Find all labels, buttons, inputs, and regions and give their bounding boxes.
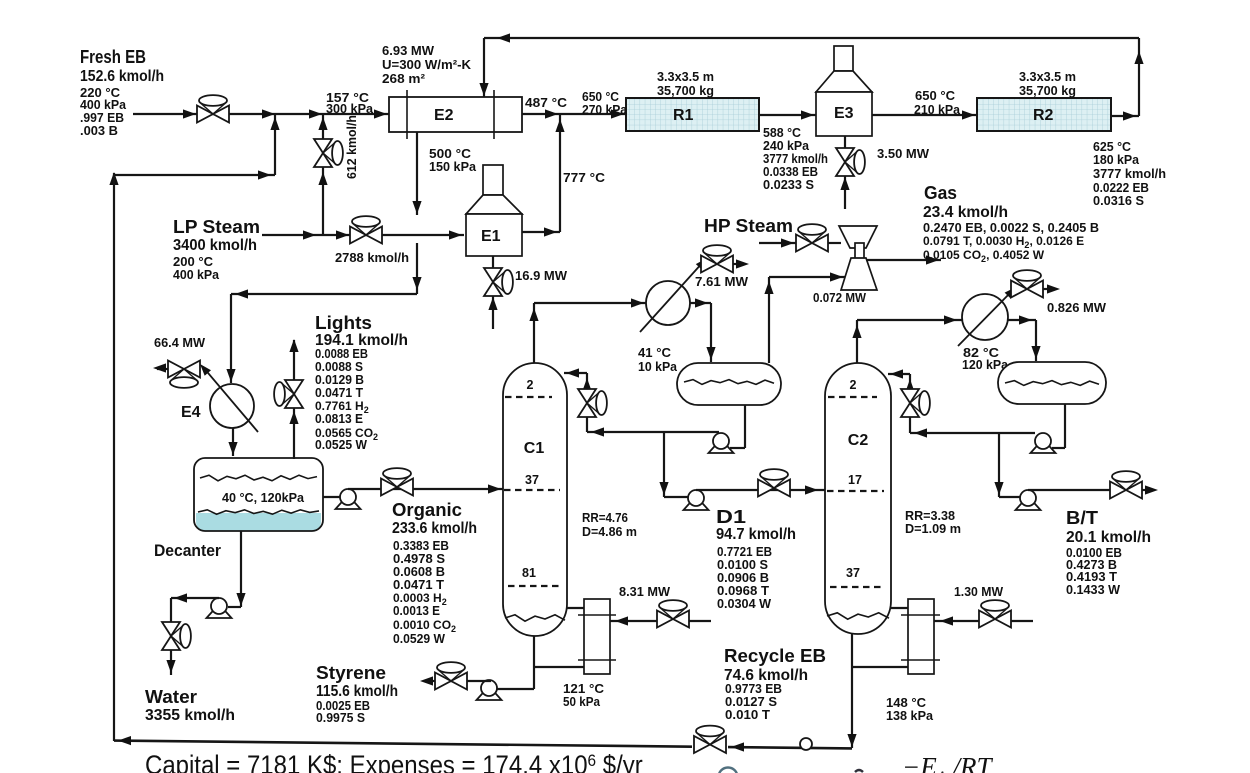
svg-text:17: 17 [848, 473, 862, 487]
svg-text:588 °C: 588 °C [763, 126, 801, 140]
svg-text:16.9 MW: 16.9 MW [515, 269, 567, 283]
svg-text:0.0471 T: 0.0471 T [315, 386, 363, 400]
svg-text:E3: E3 [834, 105, 854, 122]
svg-text:LP Steam: LP Steam [173, 217, 260, 237]
wire C2 overhead vapour line [856, 320, 858, 363]
svg-text:C1: C1 [524, 440, 545, 457]
svg-text:35,700 kg: 35,700 kg [657, 84, 714, 98]
wire steam blend riser 612 kmol/h [322, 114, 324, 235]
svg-text:138 kPa: 138 kPa [886, 709, 934, 723]
wire condenser outlet to drum D1 [690, 302, 711, 304]
valve water valve [162, 622, 180, 636]
wire E1 fuel line [492, 296, 494, 329]
svg-text:115.6 kmol/h: 115.6 kmol/h [316, 683, 398, 700]
svg-text:Organic: Organic [392, 500, 462, 520]
svg-text:D1: D1 [716, 507, 746, 527]
pump C2 reflux pump [1031, 443, 1056, 453]
valve recycle EB valve [694, 736, 710, 753]
svg-text:Capital = 7181 K$; Expenses =: Capital = 7181 K$; Expenses = 174.4 x106… [145, 751, 643, 773]
svg-text:2: 2 [850, 378, 857, 392]
svg-text:2788 kmol/h: 2788 kmol/h [335, 251, 409, 265]
svg-text:612 kmol/h: 612 kmol/h [345, 115, 359, 179]
wire E3 to R2 [872, 114, 977, 116]
svg-text:0.3383 EB: 0.3383 EB [393, 539, 449, 553]
decoration glyph fragments at bottom edge [719, 768, 738, 773]
reboiler C2 reboiler [908, 599, 934, 674]
valve E1 fuel valve 16.9 MW [484, 268, 502, 282]
wire D1 to C2 feed [696, 489, 825, 491]
wire drum1 bottoms to reflux pump [744, 405, 746, 448]
label capital and expenses caption [145, 751, 643, 773]
svg-text:Styrene: Styrene [316, 663, 386, 683]
svg-text:0.9773 EB: 0.9773 EB [725, 682, 782, 696]
furnace E3 [834, 46, 853, 71]
svg-text:270 kPa: 270 kPa [582, 103, 628, 117]
wire C1 reflux line [587, 431, 719, 433]
svg-text:0.0233 S: 0.0233 S [763, 178, 814, 192]
svg-text:8.31 MW: 8.31 MW [619, 585, 670, 599]
valve D1 valve [758, 480, 774, 497]
pump D1 pump [684, 500, 709, 510]
svg-text:650 °C: 650 °C [915, 89, 955, 103]
wire styrene product line [436, 680, 491, 682]
wire drum1 vapour to ejector [768, 277, 770, 363]
svg-text:300 kPa: 300 kPa [326, 102, 374, 116]
svg-text:121 °C: 121 °C [563, 682, 604, 696]
svg-text:0.0088 EB: 0.0088 EB [315, 347, 368, 361]
svg-text:23.4 kmol/h: 23.4 kmol/h [923, 204, 1008, 221]
svg-text:650 °C: 650 °C [582, 90, 619, 104]
svg-text:0.0968 T: 0.0968 T [717, 584, 769, 598]
wire R1 to E3 [759, 114, 816, 116]
condenser C1 condenser [646, 281, 690, 325]
svg-text:2: 2 [527, 378, 534, 392]
svg-text:180 kPa: 180 kPa [1093, 153, 1140, 167]
svg-text:41 °C: 41 °C [638, 346, 671, 360]
svg-text:400 kPa: 400 kPa [173, 268, 220, 282]
svg-text:40 °C, 120kPa: 40 °C, 120kPa [222, 491, 305, 505]
svg-text:3.3x3.5 m: 3.3x3.5 m [1019, 70, 1076, 84]
svg-text:210 kPa: 210 kPa [914, 103, 961, 117]
svg-text:D=1.09 m: D=1.09 m [905, 521, 961, 536]
svg-text:.997 EB: .997 EB [80, 111, 124, 125]
svg-text:Decanter: Decanter [154, 541, 221, 560]
heat-exchanger E2 [389, 97, 522, 132]
svg-text:Gas: Gas [924, 183, 957, 203]
svg-text:0.0013 E: 0.0013 E [393, 604, 440, 618]
valve 612 kmol/h steam valve [314, 139, 332, 153]
wire E2 hot outlet 500C down [416, 132, 418, 215]
furnace E1 [483, 165, 503, 195]
svg-text:0.010 T: 0.010 T [725, 708, 770, 722]
svg-text:0.0906 B: 0.0906 B [717, 571, 769, 585]
valve B/T valve [1110, 482, 1126, 499]
svg-text:0.0813 E: 0.0813 E [315, 412, 363, 426]
pump C1 reflux pump [709, 443, 734, 453]
vessel reflux drum C2 [998, 362, 1106, 404]
svg-text:37: 37 [846, 566, 860, 580]
svg-text:3355 kmol/h: 3355 kmol/h [145, 707, 235, 724]
svg-text:200 °C: 200 °C [173, 255, 213, 269]
svg-text:U=300 W/m²-K: U=300 W/m²-K [382, 58, 471, 72]
wire lights vent line [293, 340, 295, 459]
svg-text:7.61 MW: 7.61 MW [695, 275, 748, 289]
valve C2 reflux valve [901, 389, 919, 403]
svg-text:R1: R1 [673, 107, 694, 124]
wire E1 outlet 777C [522, 231, 560, 233]
svg-text:0.4193 T: 0.4193 T [1066, 570, 1117, 584]
svg-text:10 kPa: 10 kPa [638, 360, 678, 374]
wire HP steam line [759, 242, 796, 244]
svg-text:HP Steam: HP Steam [704, 216, 793, 236]
valve lights valve [285, 380, 303, 394]
wire recycle return to feed junction [114, 174, 275, 176]
svg-text:0.4978 S: 0.4978 S [393, 552, 445, 566]
svg-text:625 °C: 625 °C [1093, 140, 1131, 154]
reactor R2 [977, 98, 1111, 131]
svg-text:500 °C: 500 °C [429, 147, 471, 161]
wire reboiler2 steam line 1.30 MW [934, 620, 981, 622]
svg-text:400 kPa: 400 kPa [80, 98, 127, 112]
pump styrene pump [477, 690, 502, 700]
svg-text:0.7721 EB: 0.7721 EB [717, 545, 772, 559]
svg-text:240 kPa: 240 kPa [763, 139, 810, 153]
svg-text:3400 kmol/h: 3400 kmol/h [173, 237, 257, 254]
svg-text:D=4.86 m: D=4.86 m [582, 524, 637, 539]
svg-text:0.0127 S: 0.0127 S [725, 695, 777, 709]
pump organic pump [336, 499, 361, 509]
svg-text:E1: E1 [481, 228, 501, 245]
svg-text:0.0471 T: 0.0471 T [393, 578, 444, 592]
wire C2 condenser outlet to drum [1008, 319, 1036, 321]
svg-text:0.0100 S: 0.0100 S [717, 558, 768, 572]
svg-text:0.0088 S: 0.0088 S [315, 360, 363, 374]
svg-text:6.93 MW: 6.93 MW [382, 44, 434, 58]
svg-text:Water: Water [145, 687, 197, 707]
svg-text:0.0129 B: 0.0129 B [315, 373, 364, 387]
svg-text:35,700 kg: 35,700 kg [1019, 84, 1076, 98]
svg-text:152.6 kmol/h: 152.6 kmol/h [80, 68, 164, 85]
valve E3 fuel valve 3.50 MW [836, 148, 854, 162]
valve condenser coolant valve 7.61 MW [701, 256, 717, 273]
wire organic feed to C1 [348, 488, 503, 490]
svg-text:81: 81 [522, 566, 536, 580]
valve HP steam valve [796, 235, 812, 252]
svg-text:Recycle EB: Recycle EB [724, 646, 826, 666]
svg-text:233.6 kmol/h: 233.6 kmol/h [392, 520, 477, 537]
svg-text:777 °C: 777 °C [563, 171, 605, 185]
compressor steam ejector [839, 226, 877, 248]
svg-text:1.30 MW: 1.30 MW [954, 585, 1003, 599]
svg-text:487 °C: 487 °C [525, 96, 567, 110]
svg-text:0.0525 W: 0.0525 W [315, 438, 367, 452]
node junction recycle/feed [274, 114, 276, 175]
wire C2 bottoms recycle line [851, 634, 853, 748]
reboiler C1 reboiler [584, 599, 610, 674]
svg-text:Fresh EB: Fresh EB [80, 47, 146, 67]
svg-text:148 °C: 148 °C [886, 696, 926, 710]
wire fresh EB feed line [133, 113, 389, 115]
wire recycle EB riser (left edge) [113, 173, 115, 741]
svg-text:0.1433 W: 0.1433 W [1066, 583, 1120, 597]
wire reboiler1 steam line 8.31 MW [610, 620, 657, 622]
svg-text:20.1 kmol/h: 20.1 kmol/h [1066, 529, 1151, 546]
wire decanter organic outlet [323, 496, 340, 498]
svg-text:0.826 MW: 0.826 MW [1047, 301, 1106, 315]
svg-text:0.0222 EB: 0.0222 EB [1093, 181, 1149, 195]
svg-text:Lights: Lights [315, 313, 372, 333]
wire R2 outlet up and across top to E2 [1111, 115, 1139, 117]
svg-text:.003 B: .003 B [80, 124, 118, 138]
vessel reflux drum C1 [677, 363, 781, 405]
reactor R1 [626, 98, 759, 131]
valve styrene valve [435, 673, 451, 690]
valve E4 coolant valve 66.4 MW [168, 361, 184, 378]
wire E4 to decanter [232, 428, 234, 456]
wire C1 overhead vapour line [533, 303, 535, 363]
svg-text:0.0529 W: 0.0529 W [393, 632, 445, 646]
svg-text:C2: C2 [848, 432, 869, 449]
valve C2 condenser coolant valve 0.826 MW [1011, 281, 1027, 298]
cooler E4 [210, 384, 254, 428]
svg-text:R2: R2 [1033, 107, 1054, 124]
svg-text:94.7 kmol/h: 94.7 kmol/h [716, 526, 796, 543]
valve reboiler2 steam valve [979, 611, 995, 628]
column C1 [503, 363, 567, 636]
svg-text:3.50 MW: 3.50 MW [877, 147, 929, 161]
svg-text:150 kPa: 150 kPa [429, 160, 477, 174]
svg-text:268 m²: 268 m² [382, 72, 425, 86]
wire water product line [171, 597, 219, 599]
wire decanter bottoms to water pump [240, 531, 242, 607]
wire E3 fuel line [844, 176, 846, 209]
wire drum2 bottoms to pump [1064, 404, 1066, 448]
column C2 [825, 363, 891, 634]
svg-text:3.3x3.5 m: 3.3x3.5 m [657, 70, 714, 84]
valve fresh EB control valve [197, 106, 213, 123]
svg-text:0.0304 W: 0.0304 W [717, 597, 771, 611]
valve LP steam 2788 valve [350, 227, 366, 244]
svg-text:0.9975 S: 0.9975 S [316, 711, 365, 725]
svg-text:66.4 MW: 66.4 MW [154, 336, 205, 350]
wire B/T branch [998, 433, 1000, 497]
vessel decanter [196, 513, 321, 531]
svg-text:3777 kmol/h: 3777 kmol/h [1093, 167, 1166, 181]
svg-text:0.0316 S: 0.0316 S [1093, 194, 1144, 208]
svg-text:E4: E4 [181, 404, 201, 421]
svg-text:0.072 MW: 0.072 MW [813, 291, 866, 305]
wire B/T product line [1028, 489, 1112, 491]
svg-text:0.0338 EB: 0.0338 EB [763, 165, 818, 179]
wire LP steam line to E1 [262, 234, 464, 236]
svg-text:37: 37 [525, 473, 539, 487]
pump B/T pump [1016, 500, 1041, 510]
svg-text:50 kPa: 50 kPa [563, 695, 601, 709]
valve organic feed valve [381, 479, 397, 496]
wire D1 distillate branch [663, 432, 665, 497]
pump water pump [207, 608, 232, 618]
valve C1 reflux valve [578, 389, 596, 403]
svg-text:RR=4.76: RR=4.76 [582, 510, 628, 525]
condenser C2 condenser [962, 294, 1008, 340]
svg-text:0.0608 B: 0.0608 B [393, 565, 445, 579]
wire E2 outlet to reactor header [522, 113, 626, 115]
svg-text:3777 kmol/h: 3777 kmol/h [763, 152, 828, 166]
valve reboiler1 steam valve [657, 611, 673, 628]
svg-text:B/T: B/T [1066, 508, 1098, 528]
svg-text:E2: E2 [434, 107, 454, 124]
pump recycle pump [800, 738, 812, 750]
wire C2 reflux line [910, 432, 1035, 434]
wire gas product line [866, 259, 941, 261]
svg-text:0.2470 EB, 0.0022 S, 0.2405 B: 0.2470 EB, 0.0022 S, 0.2405 B [923, 221, 1099, 235]
wire C1 bottoms line [533, 636, 535, 689]
